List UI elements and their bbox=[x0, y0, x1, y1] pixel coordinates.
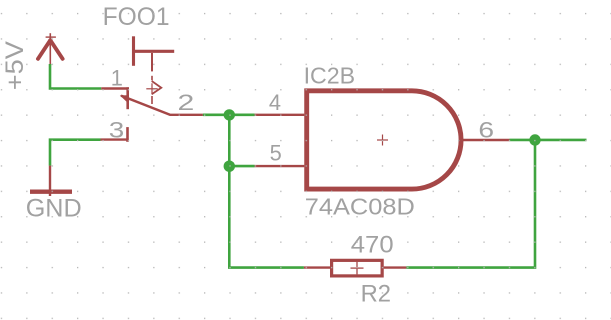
junction dot A bbox=[224, 109, 235, 120]
wire junction down to resistor R2 left bbox=[229, 166, 304, 268]
wire junction down to resistor R2 right bbox=[406, 140, 535, 268]
switch pin 1 lead and contact post bbox=[101, 87, 129, 109]
switch FOO1 bbox=[132, 36, 174, 104]
junction dot B bbox=[224, 161, 235, 172]
wire GND to switch pin 3 bbox=[50, 140, 101, 166]
junction dot C bbox=[529, 134, 540, 145]
resistor origin cross bbox=[351, 262, 364, 275]
wire junction column down bbox=[228, 115, 231, 166]
power +5V supply symbol P1 bbox=[38, 33, 63, 64]
gate pin 4 lead bbox=[255, 114, 305, 116]
wire +5V to switch pin 1 bbox=[50, 64, 101, 89]
gate origin cross bbox=[377, 135, 388, 146]
resistor R2 box bbox=[332, 260, 383, 276]
AND gate IC2B body bbox=[307, 91, 461, 189]
gate pin 6 lead bbox=[461, 139, 510, 141]
wire junction to gate pin 5 bbox=[229, 165, 254, 168]
switch lever and pin 2 lead bbox=[120, 95, 203, 115]
wire gate pin 6 to junction and right stub bbox=[510, 139, 587, 142]
switch pin 3 lead and contact post bbox=[101, 127, 129, 142]
ground symbol GND bbox=[30, 166, 72, 196]
wire switch pin 2 to junction bbox=[203, 114, 229, 117]
wire junction to gate pin 4 bbox=[229, 114, 254, 117]
resistor left lead bbox=[304, 266, 330, 268]
resistor right lead bbox=[384, 266, 407, 268]
gate pin 5 lead bbox=[255, 165, 305, 167]
